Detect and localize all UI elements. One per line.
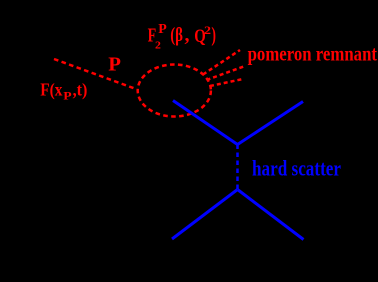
- svg-text:(β: (β: [170, 24, 183, 46]
- svg-text:hard scatter: hard scatter: [252, 156, 341, 181]
- svg-text:2: 2: [204, 25, 211, 37]
- svg-text:P: P: [158, 22, 167, 37]
- svg-text:,: ,: [185, 24, 190, 46]
- svg-text:pomeron remnant: pomeron remnant: [248, 42, 377, 66]
- svg-text:): ): [211, 23, 216, 47]
- svg-text:2: 2: [155, 40, 161, 51]
- svg-text:,t): ,t): [73, 80, 88, 101]
- svg-text:P: P: [63, 90, 71, 102]
- svg-text:F(x: F(x: [40, 80, 62, 101]
- svg-text:P: P: [108, 53, 121, 75]
